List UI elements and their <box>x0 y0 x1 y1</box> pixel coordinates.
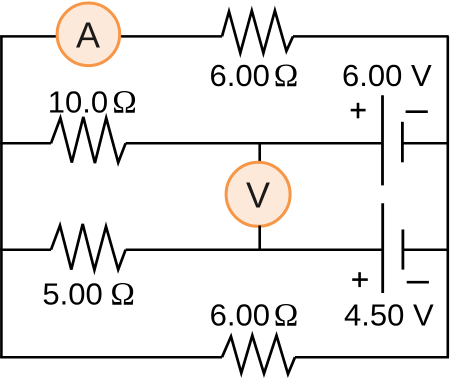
voltmeter V <box>226 162 290 226</box>
svg-text:6.00 V: 6.00 V <box>342 58 432 93</box>
resistor 6.00 ohm (top) <box>222 11 293 53</box>
wire bottom-left (corner to resistor) <box>0 356 222 359</box>
resistor 10.0 ohm <box>51 117 126 163</box>
battery V1 long plate (+) <box>381 95 384 185</box>
resistor 6.00 ohm (bottom) <box>222 336 295 375</box>
wire bottom-right (resistor to corner) <box>295 356 449 359</box>
battery V2 short plate (-) <box>401 230 404 270</box>
wire row2 right (battery V1 to right rail) <box>402 142 448 145</box>
wire top-right (resistor to corner) <box>293 35 449 38</box>
wire row3 mid (resistor to battery V2) <box>126 248 383 251</box>
battery V2 long plate (+) <box>381 203 384 293</box>
svg-text:A: A <box>76 14 100 55</box>
svg-text:4.50 V: 4.50 V <box>344 298 434 333</box>
svg-text:10.0 Ω: 10.0 Ω <box>48 85 137 121</box>
wire top-left (corner to ammeter) <box>0 35 57 38</box>
wire row3 right (battery V2 to right rail) <box>403 248 449 251</box>
svg-text:5.00 Ω: 5.00 Ω <box>42 277 135 313</box>
wire left vertical <box>0 36 3 357</box>
resistor 5.00 ohm <box>51 224 126 270</box>
wire voltmeter top stub <box>258 142 261 164</box>
wire voltmeter bottom stub <box>258 226 261 250</box>
wire row2 left (left rail to resistor) <box>0 142 51 145</box>
svg-text:6.00 Ω: 6.00 Ω <box>210 58 299 94</box>
wire row2 mid (resistor to battery V1) <box>126 142 383 145</box>
svg-text:V: V <box>246 174 270 215</box>
battery V1 plus label <box>351 103 366 119</box>
wire right vertical <box>446 36 449 357</box>
battery V1 short plate (-) <box>401 122 404 163</box>
svg-text:6.00 Ω: 6.00 Ω <box>210 298 299 334</box>
battery V2 plus label <box>352 272 368 287</box>
ammeter A <box>57 3 120 66</box>
battery V1 minus label <box>406 110 428 113</box>
wire top-mid (ammeter to resistor) <box>120 35 222 38</box>
wire row3 left (left rail to resistor) <box>0 248 51 251</box>
battery V2 minus label <box>407 281 429 284</box>
